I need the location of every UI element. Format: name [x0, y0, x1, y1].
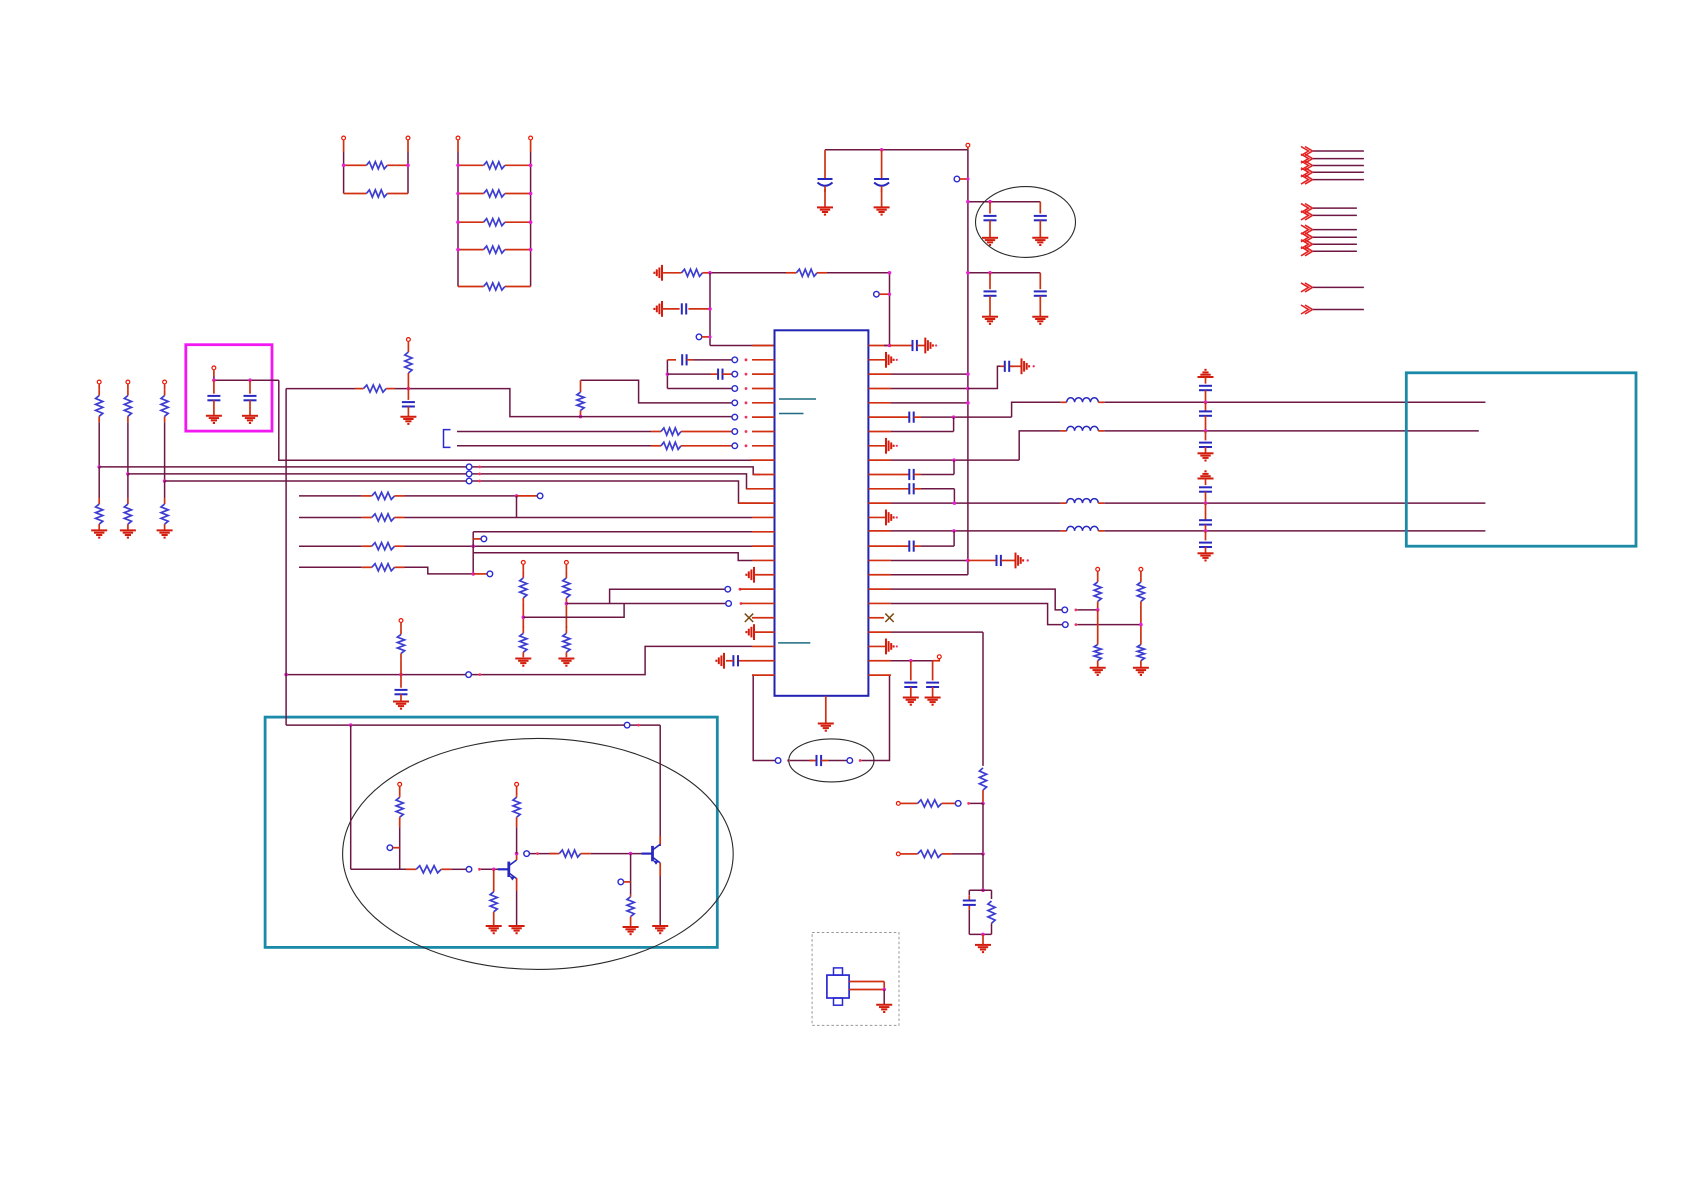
resistor R32: [396, 795, 403, 869]
resistor RchA2: [520, 626, 527, 657]
wire RN1 right rail: [407, 152, 409, 194]
pin L19: [726, 601, 775, 607]
wire chainlink1: [523, 603, 566, 628]
port P5: [966, 143, 970, 150]
pin R4: [868, 387, 969, 391]
pin-name overbar 3: [778, 642, 810, 644]
pin R8 ground: [868, 438, 898, 454]
ground Gd2: [1198, 553, 1214, 560]
port Pc: [473, 536, 487, 542]
port P9: [97, 380, 101, 389]
wire topnet2: [827, 271, 891, 346]
capacitor C12: [244, 380, 257, 416]
capacitor C14: [726, 655, 752, 666]
wire vert516: [516, 496, 518, 518]
resistor R11: [355, 385, 395, 392]
ground GchA: [515, 659, 531, 666]
ground G29: [623, 927, 639, 934]
junction RN1-b: [406, 164, 410, 168]
junction J1: [966, 200, 970, 204]
junction Jc2b: [1204, 529, 1208, 533]
junction J7: [666, 372, 670, 376]
wire L7: [457, 430, 651, 432]
capacitor Cc1b: [1199, 402, 1212, 431]
wire L14: [473, 531, 752, 533]
resistor R6: [458, 246, 531, 253]
resistor R34: [627, 895, 634, 927]
resistor R23: [362, 564, 405, 571]
chevron connector B1: [1301, 204, 1357, 213]
resistor R8: [662, 269, 710, 276]
junction J15: [522, 615, 526, 619]
junction Jc2a: [1204, 501, 1208, 505]
ground G25: [975, 934, 991, 952]
annotation box (magenta): [186, 345, 272, 431]
wire L6: [581, 416, 733, 418]
resistor R26: [1094, 641, 1101, 668]
wire row617: [523, 604, 624, 618]
pin R23: [868, 659, 932, 663]
pin R17: [868, 574, 968, 576]
wire tankrail3: [982, 854, 984, 890]
chevron connector A5: [1301, 175, 1364, 184]
junction J29: [629, 852, 633, 856]
wire down0: [98, 467, 100, 498]
wire rail: [967, 150, 969, 575]
ground G4: [1032, 238, 1048, 245]
junction J12: [515, 494, 519, 498]
capacitor C6: [1034, 273, 1047, 317]
resistor R20v: [988, 901, 995, 923]
chevron connector B2: [1301, 211, 1357, 220]
resistor R17v: [979, 768, 986, 804]
ground GchB: [558, 659, 574, 666]
pin L6: [732, 414, 775, 420]
port Pb2: [466, 471, 481, 477]
resistor R14: [96, 389, 103, 467]
pin L18: [725, 586, 775, 592]
resistor RchB1: [563, 571, 570, 603]
junction J20: [1096, 608, 1100, 612]
port Pd: [473, 571, 493, 577]
chevron connector A2: [1301, 154, 1364, 163]
ground G10: [206, 416, 222, 423]
inductor L2: [1061, 426, 1105, 431]
pin R9: [868, 458, 1019, 462]
port PchB: [565, 561, 569, 571]
pin L15: [752, 545, 775, 547]
resistor R7: [458, 283, 531, 290]
pin R2 ground: [868, 352, 898, 368]
pin R15: [868, 545, 891, 547]
capacitor Cc2a: [1199, 479, 1212, 504]
wire line1: [1012, 402, 1486, 417]
junction J28: [515, 852, 519, 856]
wire vert473: [472, 532, 474, 574]
capacitor C3: [984, 202, 997, 238]
wire loop1: [790, 760, 813, 762]
wire L15: [299, 545, 752, 547]
wire vert667: [666, 360, 668, 389]
wire rail-caps2: [968, 272, 1040, 274]
pin L21 ground: [746, 624, 774, 640]
pin R18: [868, 588, 891, 590]
junction Jc1a: [1204, 401, 1208, 405]
capacitor C13: [395, 675, 408, 702]
ground G12: [91, 530, 107, 537]
resistor R10: [577, 380, 584, 416]
junction Jb0: [97, 465, 101, 469]
wire Q2base-divider: [630, 854, 632, 895]
pin R12: [868, 501, 1060, 505]
pin L7: [732, 429, 775, 435]
pin L17 ground: [746, 567, 774, 583]
port Pa: [517, 493, 543, 499]
port Pb3: [466, 478, 481, 484]
port P31: [896, 802, 907, 806]
capacitor C23: [891, 531, 954, 552]
capacitor C21: [891, 460, 954, 480]
wire rowD: [299, 567, 473, 574]
wire net388: [286, 389, 580, 417]
wire R18: [891, 589, 1062, 610]
wire basefeed: [351, 725, 406, 869]
resistor R29: [406, 866, 466, 873]
wire L24: [752, 675, 775, 760]
junction Jc1b: [1204, 429, 1208, 433]
ground Gu1: [1198, 370, 1214, 377]
capacitor Cc2b: [1199, 503, 1212, 531]
wire Vert710: [709, 273, 711, 346]
port P4: [529, 136, 533, 152]
wire Q2coll: [659, 725, 661, 846]
junction J3: [966, 271, 970, 275]
ground G15: [393, 702, 409, 709]
port P28: [1096, 567, 1100, 578]
port P23: [399, 619, 403, 629]
junction J18: [399, 673, 403, 677]
pin R10: [868, 473, 891, 475]
port P36: [515, 782, 519, 795]
wire down1: [127, 474, 129, 498]
junction J27: [492, 868, 496, 872]
junction J2: [988, 200, 992, 204]
ground G23: [903, 698, 919, 705]
port P32: [955, 801, 970, 807]
junction RN2: [456, 220, 532, 224]
pin R22 ground: [868, 639, 898, 655]
ground G6: [1032, 317, 1048, 324]
wire tank1: [970, 802, 983, 804]
resistor R22: [362, 543, 405, 550]
ground G22: [1133, 668, 1149, 675]
ground G28: [652, 926, 668, 933]
resistor RchA1: [520, 571, 527, 603]
inductor L3: [1061, 499, 1105, 504]
pin L13: [752, 516, 775, 518]
resistor R12: [651, 428, 732, 435]
port P2: [406, 136, 410, 152]
pin R11: [868, 488, 891, 490]
wire rowL18: [610, 589, 726, 603]
capacitor C25: [809, 755, 828, 766]
resistor R16: [161, 389, 168, 481]
pin L11: [747, 488, 775, 490]
junction J17: [284, 673, 288, 677]
capacitor C8: [667, 354, 732, 365]
port P8: [212, 366, 216, 376]
junction J23: [981, 852, 985, 856]
resistor R18h: [908, 800, 956, 807]
capacitor C18: [890, 340, 926, 351]
pin L3: [732, 371, 775, 377]
inductor L1: [1061, 398, 1105, 403]
wire bus3: [165, 481, 760, 503]
port P1: [342, 136, 346, 152]
pin R5: [868, 401, 969, 405]
resistor R19: [161, 498, 168, 530]
resistor R3: [458, 162, 531, 169]
wire R18b: [1077, 609, 1097, 611]
wire R19: [891, 603, 1063, 624]
capacitor C1: [818, 150, 833, 208]
wire line2: [1019, 431, 1479, 460]
ground G3: [982, 238, 998, 245]
wire loop3: [862, 675, 890, 760]
wire xtal1: [849, 982, 884, 990]
junction J16: [565, 602, 569, 606]
wire L22: [286, 646, 752, 674]
ground G30: [876, 990, 892, 1013]
port P29: [1139, 567, 1143, 578]
wire L4: [667, 387, 732, 389]
pin R19: [868, 602, 891, 604]
capacitor C22: [891, 483, 954, 503]
chevron connector A3: [1301, 161, 1364, 170]
capacitor C9: [667, 369, 732, 380]
ground G13: [120, 530, 136, 537]
pin L23: [752, 660, 775, 662]
port P37: [398, 782, 402, 795]
wire loop2: [828, 760, 847, 762]
chevron connector A1: [1301, 147, 1364, 156]
resistor R24: [397, 628, 404, 674]
resistor R20: [362, 492, 405, 499]
wire tankbot: [969, 910, 991, 935]
wire line3: [1104, 502, 1485, 504]
junction J5: [708, 271, 712, 275]
wire collrow: [528, 853, 557, 855]
wire Q2emit: [659, 863, 661, 926]
chevron connector C2: [1301, 233, 1357, 242]
wire rowA: [299, 495, 517, 497]
ground G27: [509, 926, 525, 933]
capacitor C19: [1000, 361, 1021, 372]
wire topnet: [710, 272, 796, 274]
resistor R35: [405, 352, 412, 389]
resistor R17: [96, 498, 103, 530]
chevron connector C4: [1301, 247, 1357, 256]
chevron connector C1: [1301, 225, 1357, 234]
capacitor C10: [402, 389, 415, 417]
port P6: [954, 176, 969, 182]
junction J8: [579, 415, 583, 419]
transistor Q1: [498, 860, 517, 880]
port P3: [456, 136, 460, 152]
pin R13 ground: [868, 510, 898, 526]
ellipse callout E1: [976, 187, 1076, 258]
resistor R2: [344, 190, 408, 197]
capacitor Cc2c: [1199, 531, 1212, 553]
ground Gd1: [1198, 453, 1214, 460]
port P34: [624, 722, 640, 728]
wire RN2 right rail: [530, 152, 532, 287]
port P7: [696, 334, 711, 340]
ground G1: [817, 207, 833, 214]
chevron connector E1: [1301, 305, 1364, 314]
capacitor C5: [984, 273, 997, 317]
junction RN2: [456, 192, 532, 196]
port P22: [466, 672, 481, 678]
pin R14: [868, 529, 1060, 533]
wire rail-caps1: [968, 201, 1040, 203]
junction J13: [471, 544, 475, 548]
chevron connector A4: [1301, 168, 1364, 177]
bracket B1: [444, 430, 451, 448]
ground G7: [654, 265, 662, 281]
wire L9head: [214, 376, 279, 380]
ground G18: [925, 338, 937, 354]
junction J24: [981, 888, 985, 892]
pin-name overbar 2: [779, 413, 804, 415]
junction J14: [471, 572, 475, 576]
pin L14: [752, 531, 775, 533]
resistor R15: [124, 389, 131, 474]
wire down2: [164, 481, 166, 498]
resistor R25: [1094, 578, 1101, 610]
capacitor C16: [926, 661, 939, 698]
ground G17: [818, 696, 834, 731]
pin R6: [868, 416, 891, 418]
resistor R13: [651, 442, 732, 449]
junction Jb2: [163, 479, 167, 483]
resistor R33: [549, 850, 651, 857]
junction J30: [882, 988, 886, 992]
junction J-C2: [880, 148, 884, 152]
junction J10: [212, 378, 216, 382]
port P35: [466, 867, 481, 873]
resistor RchB2: [563, 626, 570, 657]
pin L8: [732, 443, 775, 449]
wire bus2: [128, 474, 760, 489]
wire pinL1: [710, 345, 775, 347]
wire L13: [299, 516, 752, 518]
ground G21: [1090, 668, 1106, 675]
wire R4ext: [968, 366, 1003, 388]
port P38: [387, 845, 400, 851]
junction RN1-a: [342, 164, 346, 168]
junction RN2: [456, 164, 532, 168]
pin R20 no-connect: [868, 614, 893, 622]
resistor R31: [513, 795, 520, 853]
pin R24: [868, 674, 891, 676]
capacitor C11: [207, 380, 220, 416]
pin R3: [868, 372, 969, 376]
transistor Q2: [642, 844, 661, 864]
capacitor C2: [874, 150, 889, 208]
ground G11: [242, 416, 258, 423]
connector box (teal): [1406, 373, 1636, 546]
port P40: [618, 879, 631, 885]
resistor R4: [458, 190, 531, 197]
ground G16: [716, 653, 724, 669]
junction J22: [981, 802, 985, 806]
wire L9: [279, 380, 751, 460]
junction Jb1: [126, 472, 130, 476]
wire chainA: [1097, 610, 1099, 641]
pin-name overbar 1: [779, 398, 816, 400]
wire L8: [457, 445, 651, 447]
junction J4: [988, 271, 992, 275]
resistor R9: [786, 269, 827, 276]
port P33: [896, 852, 907, 856]
wire tankrail: [982, 632, 984, 766]
port P39: [524, 851, 539, 857]
port P27: [1063, 622, 1078, 628]
capacitor Cc1c: [1199, 431, 1212, 453]
pin L22: [752, 645, 775, 647]
pin L10: [753, 473, 774, 475]
wire chainB: [1140, 609, 1142, 641]
annotation box (dashed): [812, 933, 899, 1026]
capacitor C4: [1034, 202, 1047, 238]
pin L20 no-connect: [745, 614, 775, 622]
pin R1: [868, 344, 891, 348]
wire VCC top: [825, 149, 968, 151]
port P30: [933, 655, 942, 661]
junction J21: [1139, 623, 1143, 627]
resistor R28: [1137, 641, 1144, 668]
pin L5: [732, 400, 775, 406]
crystal Y1: [827, 968, 849, 1005]
port P11: [163, 380, 167, 389]
junction J19: [952, 415, 956, 419]
resistor R1: [344, 162, 408, 169]
wire R19b: [1077, 624, 1141, 626]
resistor R30: [490, 869, 497, 926]
wire tanktop: [969, 890, 991, 899]
port Pb1: [466, 464, 481, 470]
ground G2: [874, 207, 890, 214]
port P10: [126, 380, 130, 389]
ground G5: [982, 317, 998, 324]
chevron connector C3: [1301, 240, 1357, 249]
resistor R18: [124, 498, 131, 530]
wire L5: [581, 380, 733, 403]
pin L9: [751, 459, 775, 461]
inductor L4: [1061, 526, 1105, 531]
resistor R19h: [908, 850, 984, 857]
ground G9: [400, 417, 416, 424]
wire base1: [481, 868, 507, 870]
amplifier box (teal): [265, 717, 717, 947]
ground G19: [1022, 358, 1035, 374]
pin L2: [732, 357, 775, 363]
capacitor C24: [968, 555, 1016, 566]
resistor R27: [1137, 578, 1144, 609]
pin L4: [732, 386, 775, 392]
pin L24: [752, 674, 775, 676]
